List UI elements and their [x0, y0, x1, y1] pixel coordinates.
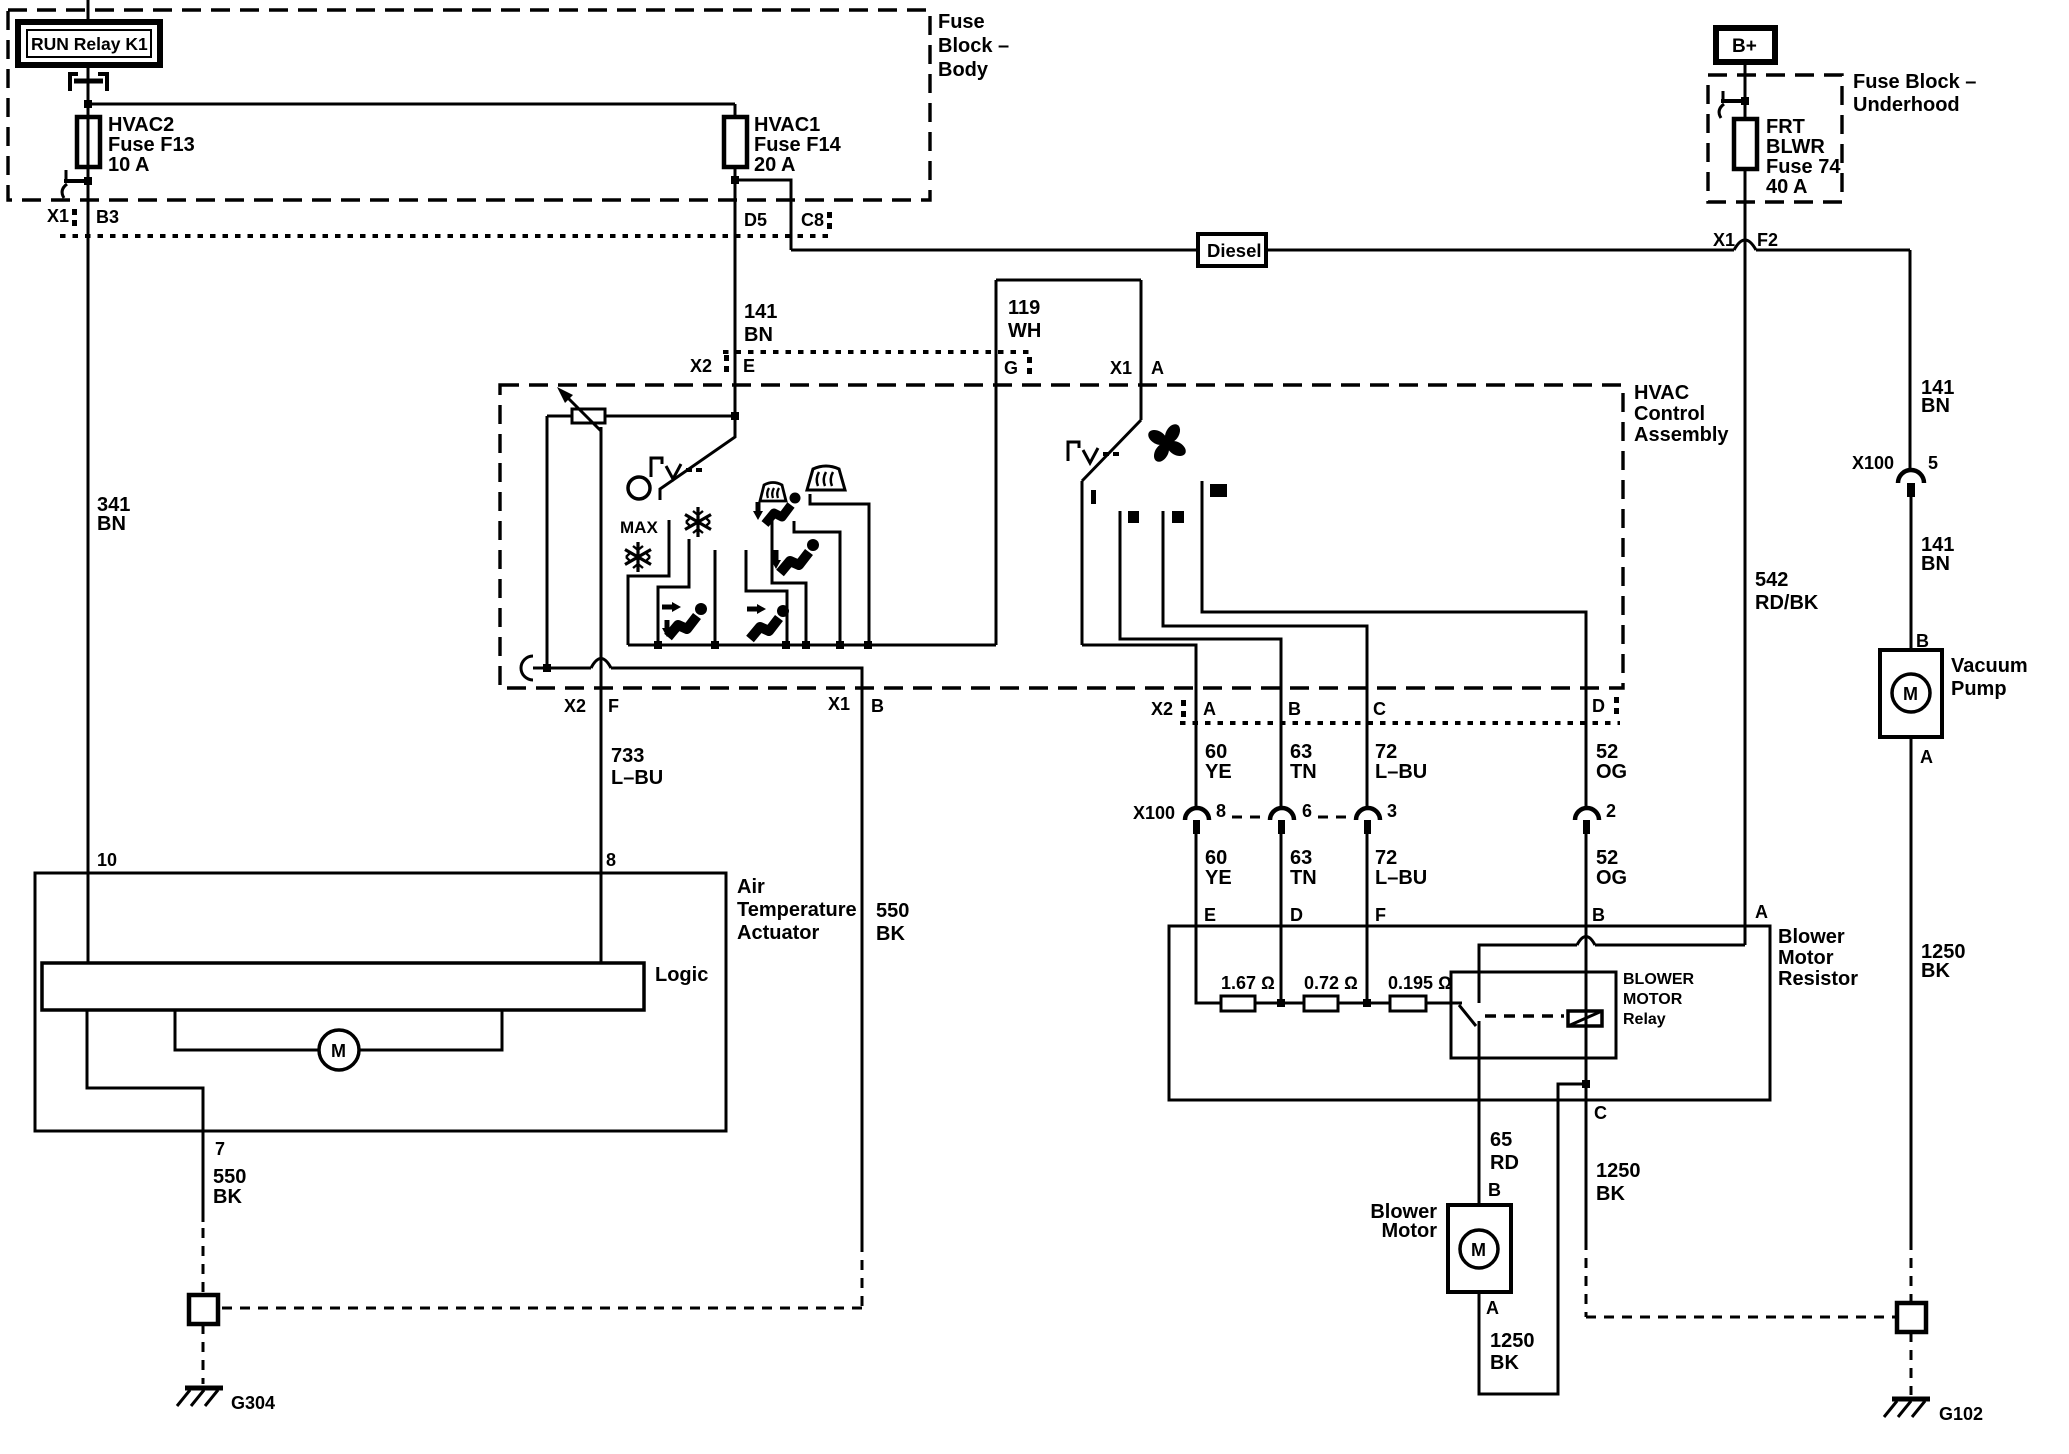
- wire: blower common to X2 pin A: [1082, 645, 1196, 806]
- svg-text:M: M: [1471, 1240, 1486, 1260]
- snowflake icon (MAX A/C): [625, 542, 651, 572]
- wire: med speed contact to X2 pin C: [1163, 511, 1367, 806]
- svg-text:X1: X1: [47, 206, 69, 226]
- wire: B+ to fuse 74: [1744, 62, 1747, 119]
- wires from X100 to blower motor resistor: [1196, 834, 1586, 1084]
- svg-text:X2: X2: [1151, 699, 1173, 719]
- terminal symbol at fuse 74: [1719, 91, 1749, 118]
- mode switch actuator symbol: [651, 458, 702, 479]
- svg-text:1250: 1250: [1596, 1160, 1641, 1182]
- svg-text:MOTOR: MOTOR: [1623, 991, 1683, 1008]
- svg-text:1.67 Ω: 1.67 Ω: [1221, 973, 1275, 993]
- svg-text:X2: X2: [690, 356, 712, 376]
- wire label 1250 BK (motor): [1490, 1330, 1535, 1374]
- svg-text:65: 65: [1490, 1129, 1512, 1151]
- blower fan icon: [1146, 422, 1189, 465]
- svg-text:B: B: [1488, 1180, 1501, 1200]
- resistor element 0.72 ohm: [1281, 973, 1367, 1011]
- temperature rheostat: [547, 387, 735, 431]
- svg-text:Pump: Pump: [1951, 678, 2007, 700]
- svg-text:TN: TN: [1290, 867, 1317, 889]
- connector pin G labels: [1004, 357, 1032, 378]
- wire: pin 10 into logic: [87, 873, 90, 963]
- defrost icon (small): [760, 483, 786, 502]
- connector X1 pin F2 labels: [1713, 230, 1778, 250]
- svg-text:X1: X1: [1713, 230, 1735, 250]
- svg-text:Resistor: Resistor: [1778, 968, 1858, 990]
- svg-text:Control: Control: [1634, 403, 1705, 425]
- connector X2 pin E labels: [690, 355, 755, 376]
- svg-text:10: 10: [97, 850, 117, 870]
- wire: 1250 BK from vacuum pump A: [1910, 737, 1913, 1240]
- wire label 550 BK (right): [876, 900, 909, 945]
- svg-text:D5: D5: [744, 210, 767, 230]
- svg-text:WH: WH: [1008, 320, 1041, 342]
- svg-text:0.72 Ω: 0.72 Ω: [1304, 973, 1358, 993]
- svg-text:Temperature: Temperature: [737, 899, 857, 921]
- mode contact vent: [714, 550, 717, 645]
- connector X2 face (dotted, top): [723, 350, 1033, 354]
- svg-text:HVAC: HVAC: [1634, 382, 1689, 404]
- ground G304: [177, 1388, 275, 1413]
- svg-text:8: 8: [606, 850, 616, 870]
- svg-text:6: 6: [1302, 801, 1312, 821]
- svg-text:BK: BK: [1921, 960, 1950, 982]
- svg-text:119: 119: [1008, 297, 1040, 319]
- mode contact A/C: [658, 539, 689, 645]
- svg-text:X100: X100: [1133, 803, 1175, 823]
- svg-text:A: A: [1203, 699, 1216, 719]
- svg-text:Relay: Relay: [1623, 1011, 1666, 1028]
- seat airflow icon (floor/vent): [771, 539, 819, 573]
- svg-text:X1: X1: [828, 694, 850, 714]
- mode contact blend: [794, 521, 840, 645]
- wire to ground G304: [202, 1324, 205, 1384]
- wire to ground G102: [1910, 1332, 1913, 1395]
- svg-text:OG: OG: [1596, 761, 1627, 783]
- svg-text:C: C: [1594, 1103, 1607, 1123]
- connector X1 pin B labels: [828, 694, 884, 716]
- svg-text:63: 63: [1290, 847, 1312, 869]
- splice near G102: [1897, 1303, 1926, 1332]
- svg-text:B: B: [1592, 905, 1605, 925]
- svg-text:B+: B+: [1732, 36, 1757, 57]
- svg-text:BK: BK: [1490, 1352, 1519, 1374]
- svg-text:Blower: Blower: [1778, 926, 1845, 948]
- wire: 1250 BK from pin C to splice: [1586, 1084, 1897, 1317]
- mode contact floor/vent: [772, 515, 806, 645]
- svg-text:B: B: [1288, 699, 1301, 719]
- svg-text:7: 7: [215, 1139, 225, 1159]
- wire labels 60 YE / 63 TN / 72 L-BU / 52 OG (below X100): [1205, 847, 1627, 889]
- wire: low speed contact to X2 pin B: [1120, 511, 1281, 806]
- svg-text:A: A: [1755, 902, 1768, 922]
- svg-text:BK: BK: [1596, 1183, 1625, 1205]
- svg-text:MAX: MAX: [620, 518, 658, 537]
- svg-text:Body: Body: [938, 59, 989, 81]
- svg-text:HVAC1: HVAC1: [754, 114, 820, 136]
- svg-text:G: G: [1004, 358, 1018, 378]
- connector pins D5 and C8 labels: [744, 210, 832, 230]
- fuse 74 FRT BLWR 40A: [1734, 116, 1841, 198]
- svg-text:BN: BN: [97, 513, 126, 535]
- svg-text:F: F: [608, 696, 619, 716]
- svg-text:M: M: [331, 1041, 346, 1061]
- svg-text:BN: BN: [744, 324, 773, 346]
- svg-text:M: M: [1903, 684, 1918, 704]
- blower switch off contact: [1091, 490, 1096, 504]
- wire label 141 BN (right lower): [1921, 534, 1954, 575]
- svg-text:Block –: Block –: [938, 35, 1009, 57]
- terminal hook on output wire: [521, 656, 533, 680]
- RUN relay K1 contact: [70, 65, 107, 115]
- wire: 341 BN from B3 down to air temperature actuator pin 10: [87, 235, 90, 873]
- fuse block - underhood (dashed enclosure): [1708, 71, 1976, 202]
- svg-text:X2: X2: [564, 696, 586, 716]
- svg-text:TN: TN: [1290, 761, 1317, 783]
- mode switch wiper blade and pivot: [628, 416, 735, 500]
- wire: 550 BK down to splice: [218, 731, 862, 1308]
- node: coil low side junction: [1582, 1080, 1590, 1088]
- wire label 1250 BK (center): [1596, 1160, 1641, 1205]
- svg-text:B: B: [871, 696, 884, 716]
- svg-text:Fuse F13: Fuse F13: [108, 134, 195, 156]
- relay actuating link (dashed): [1485, 1014, 1564, 1018]
- svg-text:5: 5: [1928, 453, 1938, 473]
- svg-text:141: 141: [744, 301, 777, 323]
- node: junction at temperature rheostat feed: [731, 412, 739, 420]
- wire: 542 RD/BK from fuse 74 down to blower motor resistor pin A: [1744, 169, 1747, 945]
- node: rheostat leg joins output wire: [543, 664, 551, 672]
- wire labels 60 YE / 63 TN / 72 L-BU / 52 OG (above X100): [1205, 741, 1627, 783]
- wire: high speed contact to X2 pin D: [1202, 481, 1586, 806]
- wire: pin A feed to relay switch, hops over 52 OG: [1479, 937, 1745, 1004]
- fuse F14 HVAC1 20A: [724, 104, 842, 182]
- splice near G304: [189, 1295, 218, 1324]
- svg-text:Fuse: Fuse: [938, 11, 985, 33]
- wire label 141 BN (fuse F14 output): [744, 301, 777, 346]
- air temperature actuator (enclosure): [35, 873, 857, 1131]
- svg-text:A: A: [1151, 358, 1164, 378]
- ground G102: [1884, 1399, 1983, 1424]
- nodes: resistor chain junctions: [1277, 999, 1285, 1007]
- svg-text:BK: BK: [213, 1186, 242, 1208]
- svg-text:BN: BN: [1921, 395, 1950, 417]
- svg-text:L–BU: L–BU: [1375, 867, 1427, 889]
- svg-text:YE: YE: [1205, 761, 1232, 783]
- seat airflow icon (vent): [747, 604, 789, 639]
- wire: Diesel feed continues, hops over 542 wire: [1266, 249, 1734, 252]
- connector face (dotted) of fuse block body: [60, 234, 835, 238]
- defrost icon (large): [807, 466, 845, 490]
- svg-text:A: A: [1486, 1298, 1499, 1318]
- svg-text:Fuse 74: Fuse 74: [1766, 156, 1841, 178]
- wire: 119 WH loop from pin G to pin A: [996, 280, 1141, 645]
- wire: 733 L-BU rheostat wiper down to air temperature actuator pin 8: [600, 427, 603, 873]
- svg-text:63: 63: [1290, 741, 1312, 763]
- svg-text:B3: B3: [96, 207, 119, 227]
- svg-text:FRT: FRT: [1766, 116, 1805, 138]
- seat airflow icon (defrost/floor blend): [753, 493, 801, 525]
- blower motor relay: [1451, 971, 1695, 1058]
- wire label 341 BN: [97, 494, 130, 535]
- blower motor resistor (enclosure): [1169, 926, 1858, 1100]
- resistor element 1.67 ohm: [1221, 973, 1281, 1011]
- in-line connector X100 pins 8 6 3 2: [1133, 801, 1616, 834]
- svg-text:542: 542: [1755, 569, 1788, 591]
- wire: 141 BN down right side: [1909, 250, 1912, 469]
- svg-text:RUN Relay K1: RUN Relay K1: [31, 34, 148, 54]
- svg-text:C8: C8: [801, 210, 824, 230]
- svg-text:F2: F2: [1757, 230, 1778, 250]
- wire: pin 8 into logic: [600, 873, 603, 963]
- wire: 65 RD from relay to blower motor: [1478, 1021, 1481, 1205]
- svg-text:BN: BN: [1921, 553, 1950, 575]
- svg-text:40 A: 40 A: [1766, 176, 1808, 198]
- connector X1 pin A labels: [1110, 358, 1164, 378]
- snowflake icon (A/C): [685, 507, 711, 537]
- wire label 542 RD/BK: [1755, 569, 1819, 614]
- wire: relay output feed to fuse F14: [88, 103, 735, 106]
- wire: 141 BN from fuse F14 down to HVAC pin E: [734, 180, 737, 416]
- wire: mode switch output to X1 pin B, hops over 733 wire: [533, 659, 862, 732]
- wire: branch to C8 / Diesel feed: [735, 180, 791, 250]
- svg-text:733: 733: [611, 745, 644, 767]
- seat airflow icon (floor, with arrows): [662, 602, 707, 637]
- svg-text:Motor: Motor: [1778, 947, 1834, 969]
- wire label 550 BK (left): [213, 1166, 246, 1208]
- resistor element 0.195 ohm: [1367, 973, 1462, 1011]
- svg-text:RD: RD: [1490, 1152, 1519, 1174]
- svg-text:L–BU: L–BU: [611, 767, 663, 789]
- wire: logic to pin 7: [87, 1010, 203, 1131]
- vacuum pump: [1880, 650, 2028, 737]
- mode contact defrost: [810, 494, 869, 645]
- svg-text:52: 52: [1596, 741, 1618, 763]
- svg-text:Diesel: Diesel: [1207, 240, 1262, 261]
- svg-text:BLOWER: BLOWER: [1623, 971, 1695, 988]
- svg-text:Motor: Motor: [1381, 1220, 1437, 1242]
- svg-text:D: D: [1290, 905, 1303, 925]
- wire label 733 L-BU: [611, 745, 663, 789]
- svg-text:Vacuum: Vacuum: [1951, 655, 2028, 677]
- svg-text:C: C: [1373, 699, 1386, 719]
- actuator motor M: [175, 1010, 502, 1070]
- wire label 141 BN (right upper): [1921, 377, 1954, 417]
- relay switch blade: [1459, 1005, 1476, 1026]
- svg-text:X100: X100: [1852, 453, 1894, 473]
- svg-text:G304: G304: [231, 1393, 275, 1413]
- HVAC control assembly (dashed enclosure): [500, 382, 1729, 688]
- connector X2 pins A-D labels: [1151, 696, 1619, 719]
- nodes on mode bus: [654, 641, 872, 649]
- Diesel label box: [1198, 234, 1266, 266]
- svg-text:1250: 1250: [1490, 1330, 1535, 1352]
- svg-text:D: D: [1592, 696, 1605, 716]
- svg-text:RD/BK: RD/BK: [1755, 592, 1819, 614]
- connector X2 face (dotted, bottom): [1180, 721, 1620, 725]
- svg-text:72: 72: [1375, 741, 1397, 763]
- svg-text:60: 60: [1205, 847, 1227, 869]
- terminal symbol below fuse F13: [62, 167, 92, 235]
- mode switch common bus: [628, 644, 996, 647]
- svg-text:HVAC2: HVAC2: [108, 114, 174, 136]
- wire: Diesel feed from C8 to label: [791, 249, 1198, 252]
- wire: 550 BK down to splice: [202, 1131, 205, 1295]
- svg-text:8: 8: [1216, 801, 1226, 821]
- svg-text:Fuse F14: Fuse F14: [754, 134, 842, 156]
- blower switch actuator symbol: [1068, 442, 1119, 463]
- relay coil: [1568, 1011, 1602, 1026]
- svg-text:0.195 Ω: 0.195 Ω: [1388, 973, 1452, 993]
- wire: motor return loop to junction: [1479, 1084, 1586, 1394]
- svg-text:Logic: Logic: [655, 964, 708, 986]
- wire label 1250 BK (right): [1921, 941, 1966, 982]
- svg-text:OG: OG: [1596, 867, 1627, 889]
- svg-text:20 A: 20 A: [754, 154, 796, 176]
- wire label 65 RD: [1490, 1129, 1519, 1174]
- svg-text:G102: G102: [1939, 1404, 1983, 1424]
- blower motor: [1370, 1201, 1511, 1292]
- in-line connector X100 pin 5: [1852, 453, 1938, 650]
- fuse block - body (dashed enclosure): [8, 10, 1009, 200]
- svg-text:72: 72: [1375, 847, 1397, 869]
- svg-text:A: A: [1920, 747, 1933, 767]
- fuse F13 HVAC2 10A: [77, 114, 195, 176]
- mode contact MAX A/C: [628, 520, 669, 645]
- resistor pin letters E D F B A: [1204, 902, 1768, 925]
- svg-text:Assembly: Assembly: [1634, 424, 1729, 446]
- svg-text:Actuator: Actuator: [737, 922, 819, 944]
- svg-text:550: 550: [213, 1166, 246, 1188]
- connector X2 pin F labels: [564, 696, 619, 716]
- svg-text:BLWR: BLWR: [1766, 136, 1825, 158]
- svg-text:X1: X1: [1110, 358, 1132, 378]
- blower switch contact squares: [1128, 484, 1227, 523]
- node: junction of relay output: [84, 100, 92, 108]
- svg-text:Air: Air: [737, 876, 765, 898]
- logic module: [42, 963, 708, 1010]
- svg-text:YE: YE: [1205, 867, 1232, 889]
- node: junction below fuse F14: [731, 176, 739, 184]
- svg-text:BK: BK: [876, 923, 905, 945]
- svg-text:Underhood: Underhood: [1853, 94, 1960, 116]
- connector X1 pin B3 labels: [47, 206, 119, 227]
- svg-text:Fuse Block –: Fuse Block –: [1853, 71, 1976, 93]
- svg-text:2: 2: [1606, 801, 1616, 821]
- B+ power symbol: [1716, 28, 1775, 62]
- svg-text:E: E: [1204, 905, 1216, 925]
- svg-text:550: 550: [876, 900, 909, 922]
- svg-text:60: 60: [1205, 741, 1227, 763]
- svg-text:F: F: [1375, 905, 1386, 925]
- svg-text:E: E: [743, 356, 755, 376]
- mode contact floor: [746, 550, 787, 645]
- RUN relay K1: [18, 0, 160, 65]
- wire: rheostat left leg down to output wire: [546, 416, 549, 668]
- svg-text:52: 52: [1596, 847, 1618, 869]
- svg-text:L–BU: L–BU: [1375, 761, 1427, 783]
- svg-text:3: 3: [1387, 801, 1397, 821]
- svg-text:10 A: 10 A: [108, 154, 150, 176]
- blower switch blade from pin A: [1082, 420, 1141, 645]
